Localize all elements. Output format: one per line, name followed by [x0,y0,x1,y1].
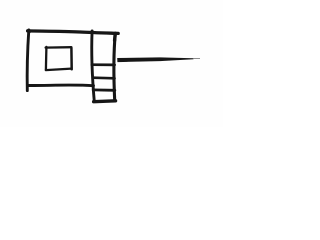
inner square: top edge [46,46,72,49]
outer rectangle: top edge [28,31,119,34]
column: left edge [92,31,95,102]
outer rectangle: top-left corner emphasis [28,29,29,33]
column divider 1 [92,63,115,66]
outer rectangle: left edge [27,30,29,91]
column: right edge [114,33,116,100]
outer rectangle: bottom edge [28,84,94,88]
inner square: bottom edge [46,69,71,71]
column: bottom edge [94,99,116,103]
column divider 3 [93,89,115,92]
column divider 2 [93,76,115,79]
inner square: left edge [45,47,48,70]
inner square: right edge [70,48,73,70]
column: right edge top emphasis [113,34,117,41]
long tapering line [117,57,200,62]
